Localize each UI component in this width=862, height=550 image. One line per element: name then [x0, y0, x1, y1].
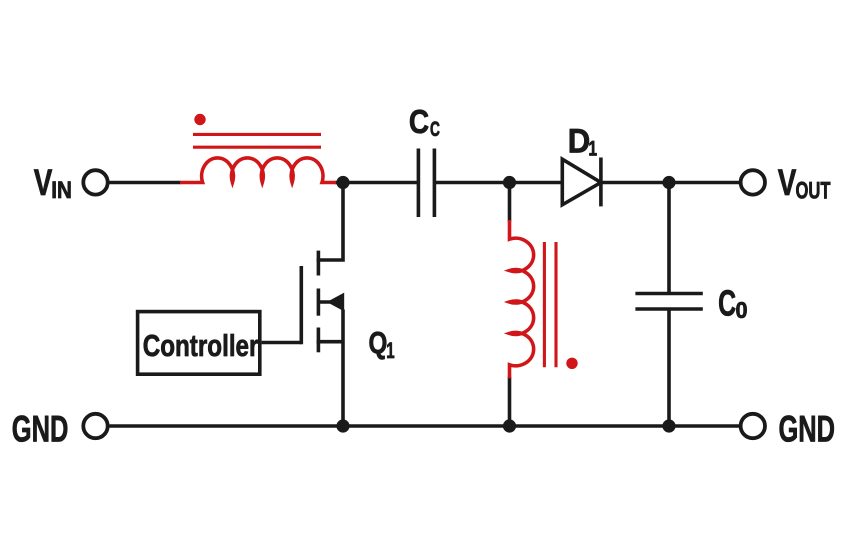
svg-text:C: C [718, 283, 736, 324]
svg-text:1: 1 [588, 136, 597, 160]
svg-text:D: D [568, 121, 591, 160]
svg-text:OUT: OUT [796, 177, 831, 204]
svg-text:IN: IN [51, 176, 72, 203]
svg-text:0: 0 [736, 297, 748, 323]
svg-text:GND: GND [779, 408, 836, 450]
svg-text:V: V [778, 161, 797, 203]
svg-text:V: V [34, 161, 53, 203]
svg-text:Q: Q [369, 325, 388, 360]
svg-text:C: C [430, 117, 440, 141]
svg-text:Controller: Controller [143, 328, 259, 363]
svg-text:C: C [409, 104, 429, 141]
svg-text:GND: GND [12, 408, 69, 450]
svg-text:1: 1 [386, 338, 394, 362]
